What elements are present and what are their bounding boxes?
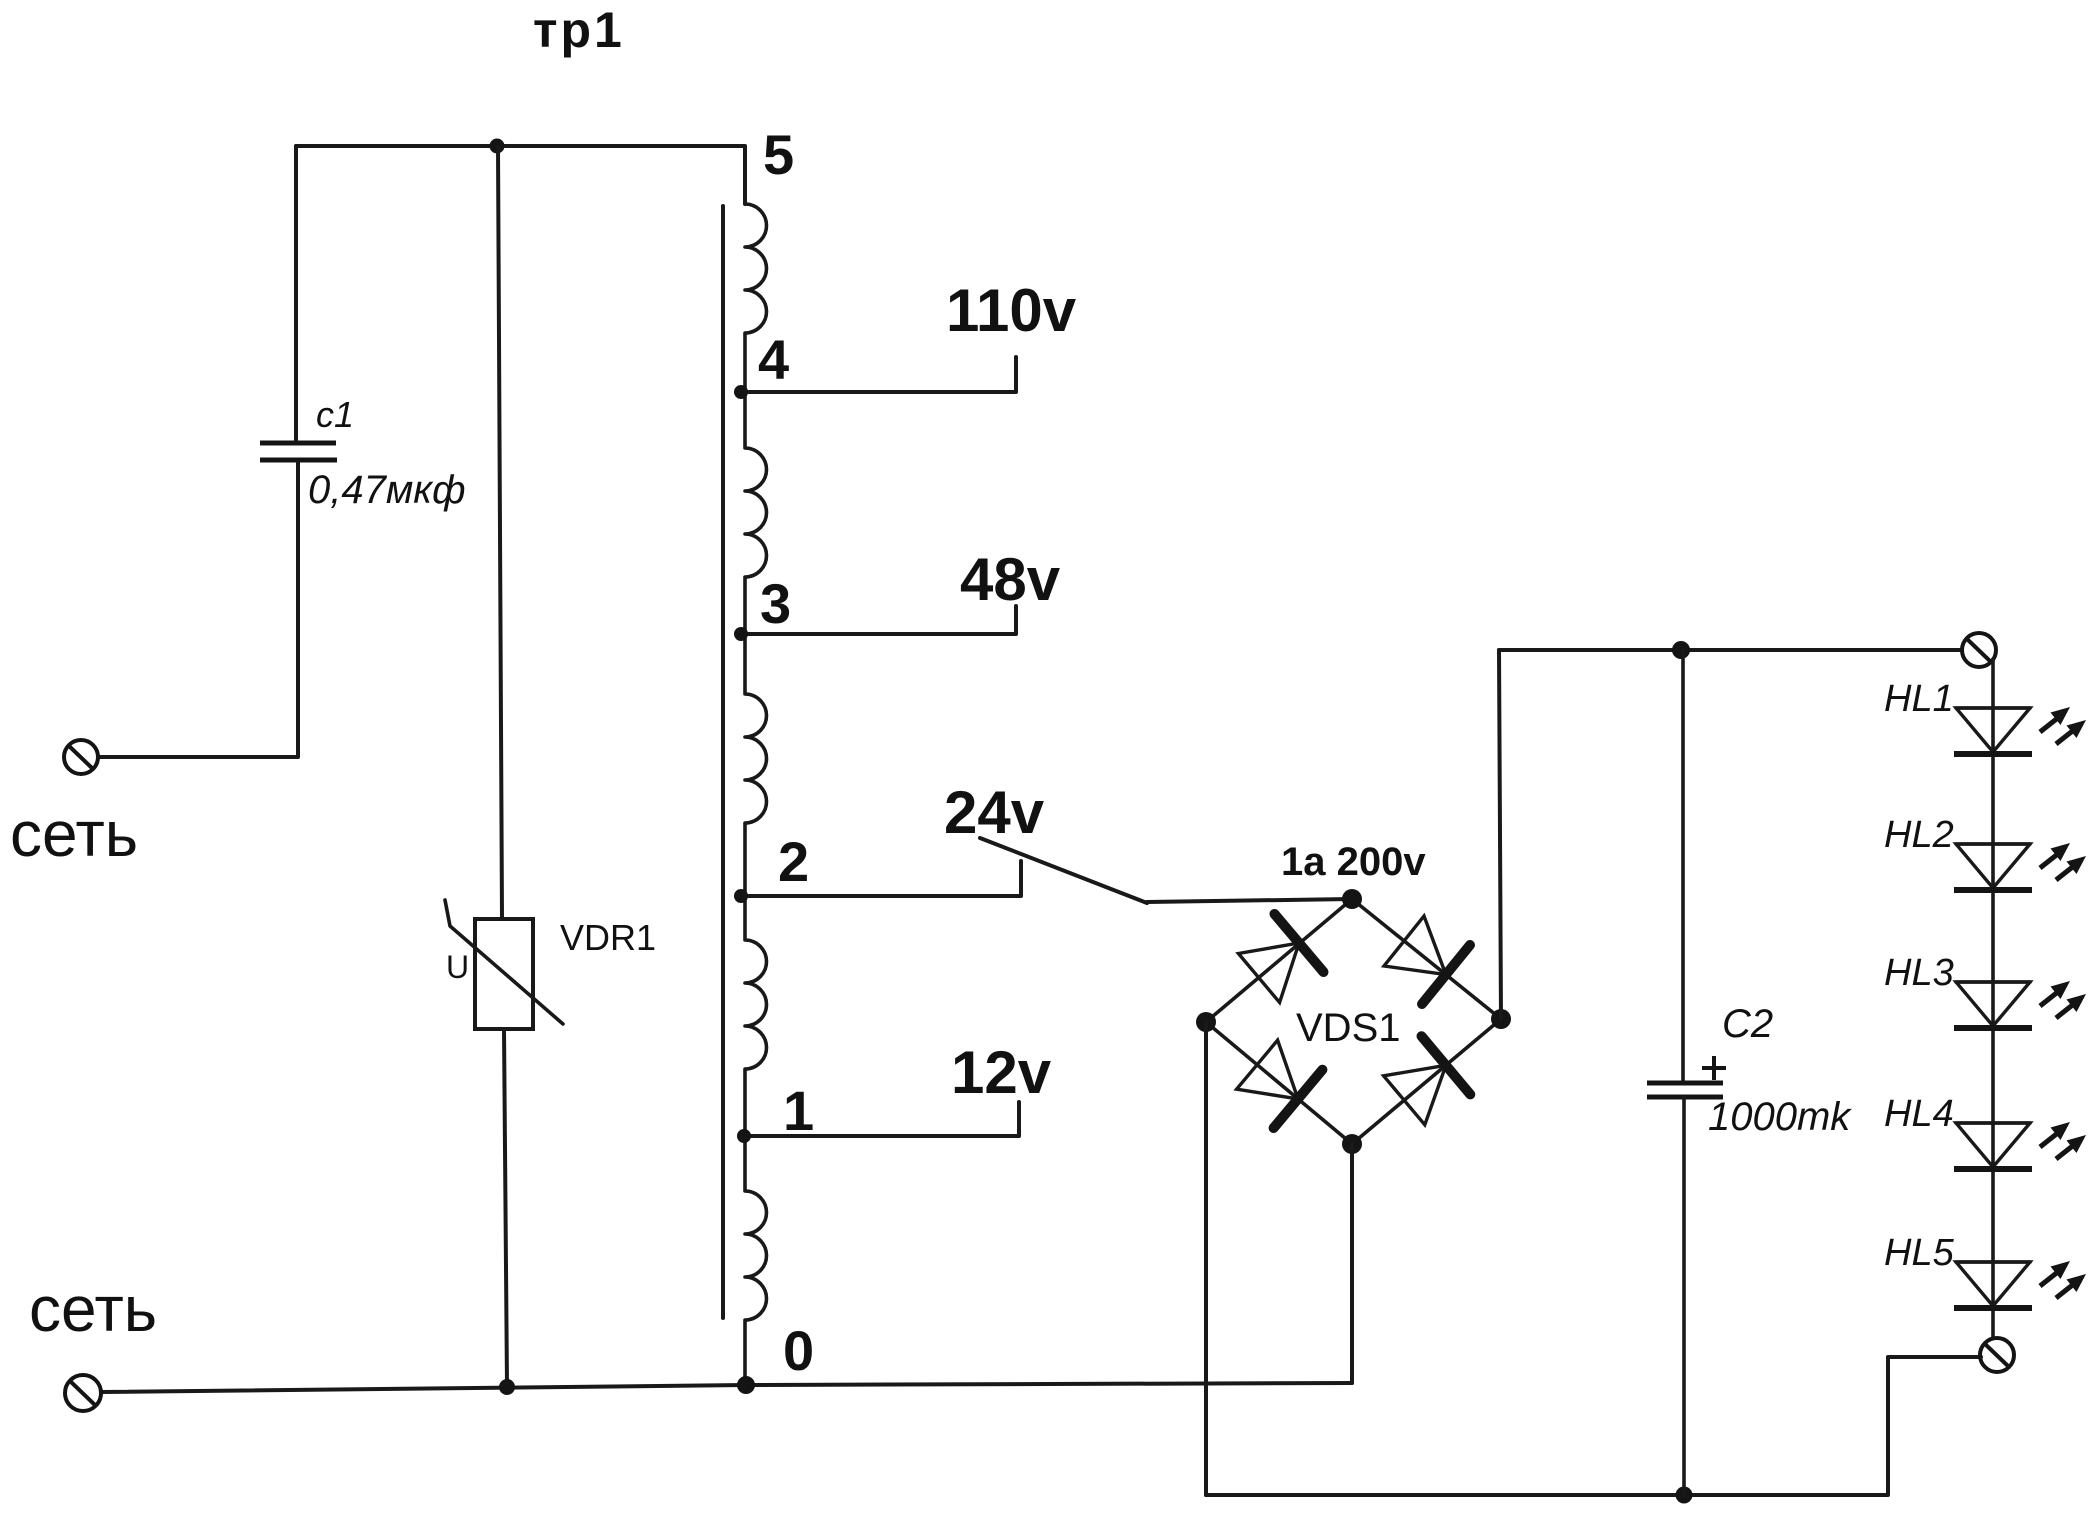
- svg-text:сеть: сеть: [10, 798, 138, 870]
- wire: bridge bottom node to tap 0 net: [1350, 1144, 1354, 1383]
- junction: bridge AC top node: [1342, 889, 1362, 909]
- LED HL3: [1954, 981, 2086, 1028]
- svg-text:48v: 48v: [960, 546, 1061, 613]
- wire: tap 2 to switch fixed contact: [740, 861, 1021, 896]
- svg-text:3: 3: [760, 572, 791, 635]
- wire: VDR1 lower lead: [504, 1029, 507, 1386]
- svg-text:110v: 110v: [946, 277, 1077, 344]
- junction: tap 0: [737, 1376, 755, 1394]
- svg-text:HL4: HL4: [1884, 1093, 1954, 1135]
- terminal: output positive: [1962, 633, 1996, 667]
- svg-text:0: 0: [783, 1319, 814, 1382]
- diode VD4 (bottom-right arm): [1384, 1036, 1471, 1125]
- junction: tap 3: [734, 627, 748, 641]
- svg-text:4: 4: [758, 328, 789, 391]
- terminal: lower mains input: [65, 1375, 101, 1411]
- svg-text:VDR1: VDR1: [560, 917, 656, 958]
- wire: bridge right node up to positive rail: [1499, 650, 1501, 1019]
- svg-text:C2: C2: [1722, 1002, 1773, 1046]
- svg-text:1a 200v: 1a 200v: [1281, 840, 1426, 884]
- junction: tap 2: [734, 889, 748, 903]
- svg-text:тр1: тр1: [533, 2, 625, 58]
- wire: VDR1 upper lead: [498, 147, 502, 918]
- wire: tap 1 output 12v: [744, 1102, 1019, 1136]
- wire: C2 upper lead: [1681, 650, 1685, 1082]
- svg-text:12v: 12v: [951, 1039, 1052, 1106]
- terminal: output negative: [1980, 1338, 2014, 1372]
- LED HL4: [1954, 1122, 2086, 1169]
- junction: negative rail / C2: [1676, 1487, 1693, 1504]
- svg-text:2: 2: [778, 830, 809, 893]
- junction: bridge AC bottom node: [1342, 1134, 1362, 1154]
- diode bridge VDS1: side bottom-right: [1352, 1019, 1501, 1144]
- svg-text:1000mk: 1000mk: [1708, 1095, 1852, 1139]
- wire: tap 3 output 48v: [740, 606, 1016, 634]
- svg-text:U: U: [446, 949, 469, 985]
- capacitor C2 plates: [1647, 1083, 1723, 1097]
- diode bridge VDS1: side bottom-left: [1206, 1022, 1352, 1144]
- diode bridge VDS1: side top-right: [1352, 899, 1501, 1019]
- junction: bridge DC left node: [1196, 1012, 1216, 1032]
- LED HL1: [1954, 707, 2086, 754]
- capacitor C1 plates: [260, 443, 337, 460]
- varistor VDR1: [445, 900, 563, 1029]
- svg-text:HL5: HL5: [1884, 1232, 1955, 1274]
- junction: tap 1: [737, 1129, 751, 1143]
- wire: negative rail bottom: [1206, 1357, 1981, 1495]
- transformer TP1 core: [721, 206, 725, 1318]
- svg-text:HL2: HL2: [1884, 814, 1954, 856]
- transformer TP1 winding with taps 5..0: [745, 204, 766, 1384]
- junction: positive rail / C2: [1672, 641, 1690, 659]
- junction: VDR1 / bottom mains wire: [499, 1379, 515, 1395]
- svg-text:1: 1: [783, 1079, 814, 1142]
- wire: positive rail to upper output terminal: [1499, 648, 1962, 652]
- wire: LED chain vertical: [1991, 659, 1995, 1338]
- svg-text:24v: 24v: [944, 779, 1045, 846]
- wire: mains neutral from lower terminal along tap 0: [101, 1383, 1352, 1392]
- switch blade (24v selector): [980, 838, 1147, 903]
- svg-text:0,47мкф: 0,47мкф: [308, 468, 466, 512]
- svg-text:VDS1: VDS1: [1296, 1006, 1401, 1050]
- wire: C2 lower lead: [1682, 1097, 1686, 1495]
- diode VD2 (top-right arm): [1384, 916, 1470, 1004]
- LED HL5: [1954, 1261, 2086, 1308]
- wire: C1 upper lead: [294, 146, 298, 440]
- label C2 polarity +: [1702, 1056, 1726, 1080]
- wire: switch to bridge AC input: [1147, 899, 1352, 902]
- diode VD1 (top-left arm): [1238, 914, 1323, 1003]
- wire: C1 lower lead down to upper mains wire: [99, 462, 298, 757]
- junction: bridge DC right node: [1491, 1009, 1511, 1029]
- diode VD3 (bottom-left arm): [1237, 1040, 1323, 1128]
- svg-text:HL1: HL1: [1884, 678, 1954, 720]
- svg-text:сеть: сеть: [29, 1273, 157, 1345]
- junction: tap 4: [734, 385, 748, 399]
- terminal: upper mains input: [64, 740, 98, 774]
- wire: bridge left node down to negative rail: [1204, 1022, 1208, 1495]
- diode bridge VDS1: side top-left: [1206, 899, 1352, 1022]
- junction: top wire / VDR1: [490, 139, 505, 154]
- wire: top net from C1 to transformer tap 5: [296, 146, 745, 204]
- svg-text:HL3: HL3: [1884, 952, 1954, 994]
- svg-text:5: 5: [763, 123, 794, 186]
- svg-text:c1: c1: [316, 394, 354, 435]
- wire: tap 4 output 110v: [740, 357, 1016, 392]
- LED HL2: [1954, 843, 2086, 890]
